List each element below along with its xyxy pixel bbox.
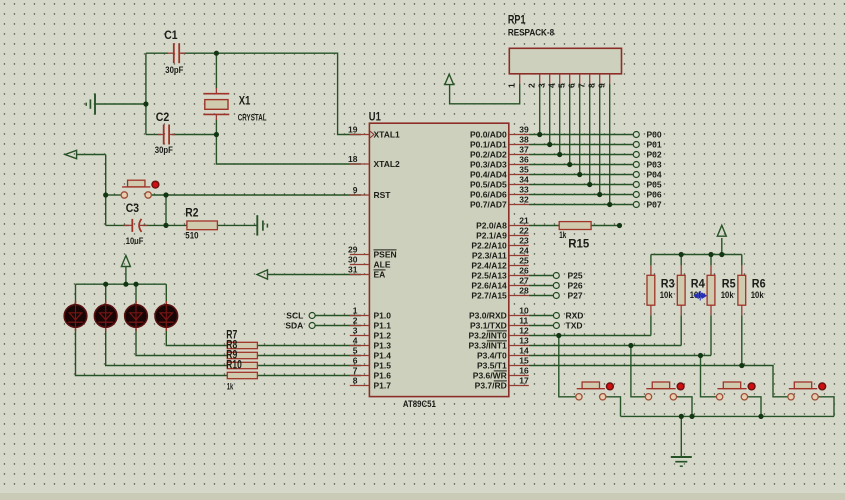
LED D3 xyxy=(125,301,148,331)
terminal SCL xyxy=(286,311,315,321)
wire R15 right stub xyxy=(591,225,619,227)
wire pull-up power rail xyxy=(651,254,742,256)
node XTAL1 net xyxy=(214,51,219,56)
svg-text:13: 13 xyxy=(519,336,529,346)
svg-text:32: 32 xyxy=(519,195,529,205)
svg-text:28: 28 xyxy=(519,286,529,296)
wire resistor to P1 pin xyxy=(257,355,361,357)
svg-text:5: 5 xyxy=(353,346,358,356)
svg-text:P2.1/A9: P2.1/A9 xyxy=(476,231,507,241)
node INT1 branch xyxy=(628,343,633,348)
wire RP1 pin 2 to P0.0 net xyxy=(539,84,541,135)
wire R2 right to ground xyxy=(217,224,257,226)
resistor R2 xyxy=(187,221,218,230)
svg-text:17: 17 xyxy=(519,376,529,386)
svg-text:34: 34 xyxy=(519,175,529,185)
terminal P27 xyxy=(553,291,583,301)
U1 left pin names xyxy=(374,130,401,391)
push button SW1 xyxy=(576,382,614,400)
svg-text:P1.1: P1.1 xyxy=(374,321,392,331)
svg-text:P0.7/AD7: P0.7/AD7 xyxy=(470,200,507,210)
svg-text:24: 24 xyxy=(519,246,529,256)
svg-text:5: 5 xyxy=(556,83,566,88)
wire rail to resistor top xyxy=(680,255,682,266)
node ground stem xyxy=(679,414,684,419)
wire R5 bottom to T0 row xyxy=(710,315,712,355)
svg-text:EA: EA xyxy=(374,270,386,280)
svg-text:C2: C2 xyxy=(156,112,170,124)
wire RP1 pin 7 to P0.5 net xyxy=(589,84,591,185)
node T0 branch xyxy=(698,353,703,358)
svg-text:RESPACK-8: RESPACK-8 xyxy=(508,28,554,39)
svg-text:4: 4 xyxy=(353,336,358,346)
svg-text:RXD: RXD xyxy=(566,311,584,321)
svg-text:P3.3/INT1: P3.3/INT1 xyxy=(469,341,508,351)
wire LED anode rail xyxy=(76,283,167,285)
node C3/R2 xyxy=(163,223,168,228)
wire P0.5 to terminal P05 xyxy=(529,184,633,186)
svg-text:P26: P26 xyxy=(568,281,583,291)
wire P2.6 to terminal P26 xyxy=(529,285,553,287)
RP1 pin numbers xyxy=(506,83,606,88)
svg-text:R10: R10 xyxy=(226,359,242,371)
svg-text:31: 31 xyxy=(348,265,358,275)
svg-text:P04: P04 xyxy=(647,170,662,180)
wire P2.0 to R15 left xyxy=(529,225,559,227)
svg-text:16: 16 xyxy=(519,366,529,376)
cursor marker blue arrow xyxy=(694,291,706,301)
wire node to XTAL1 xyxy=(216,53,361,134)
svg-text:X1: X1 xyxy=(239,95,251,107)
wire R4 bottom to INT1 row xyxy=(680,315,682,345)
node ground tap xyxy=(143,101,148,106)
svg-text:30pF: 30pF xyxy=(165,65,183,76)
resistor R10 xyxy=(227,372,257,378)
svg-text:P1.2: P1.2 xyxy=(374,331,392,341)
svg-text:26: 26 xyxy=(519,266,529,276)
svg-text:29: 29 xyxy=(348,245,358,255)
node P0.1/RP1 xyxy=(547,142,552,147)
svg-text:P02: P02 xyxy=(647,150,662,160)
wire RP1 pin 8 to P0.6 net xyxy=(599,84,601,195)
power arrow pull-up rail xyxy=(717,225,726,236)
node SW3 drop xyxy=(758,414,763,419)
node P0.6/RP1 xyxy=(597,192,602,197)
terminal P06 xyxy=(633,190,662,200)
node RST right xyxy=(163,192,168,197)
svg-text:R15: R15 xyxy=(568,239,590,251)
node rail R4 xyxy=(679,252,684,257)
wire node down to crystal top xyxy=(215,53,217,88)
svg-text:P1.0: P1.0 xyxy=(374,311,392,321)
wire P0.3 to terminal P03 xyxy=(529,164,633,166)
svg-text:P0.6/AD6: P0.6/AD6 xyxy=(470,190,507,200)
svg-text:P05: P05 xyxy=(647,180,662,190)
wire P3.1 to TXD terminal xyxy=(529,325,553,327)
svg-text:C3: C3 xyxy=(126,203,139,215)
svg-text:PSEN: PSEN xyxy=(374,250,397,260)
wire INT1 branch to button SW2 xyxy=(631,346,645,397)
terminal RXD xyxy=(553,311,583,321)
svg-text:C1: C1 xyxy=(164,30,178,42)
svg-text:R6: R6 xyxy=(752,279,766,291)
svg-text:U1: U1 xyxy=(369,111,381,123)
wire P3.5/T1 row to button SW4 xyxy=(529,366,788,397)
capacitor C1 xyxy=(168,43,185,63)
svg-text:9: 9 xyxy=(353,185,358,195)
resistor R3 xyxy=(647,265,655,315)
svg-text:30pF: 30pF xyxy=(155,145,173,156)
wire P0.4 to terminal P04 xyxy=(529,174,633,176)
ground right of R2 xyxy=(257,215,267,235)
terminal P01 xyxy=(633,140,662,150)
wire power arrow stem to rail xyxy=(721,238,723,255)
resistor R9 xyxy=(227,362,257,368)
svg-text:R5: R5 xyxy=(722,279,736,291)
wire RST net left vertical xyxy=(105,155,107,226)
U1 left pin stubs xyxy=(350,135,370,386)
terminal SDA xyxy=(285,321,315,331)
node rail R5 xyxy=(708,252,713,257)
wire input arrow to RST net xyxy=(77,154,106,156)
IC U1 AT89C51 body xyxy=(369,123,508,396)
wire RP1 pin 1 to power arrow xyxy=(450,84,520,104)
wire P0.2 to terminal P02 xyxy=(529,154,633,156)
wire C1 right to node xyxy=(181,52,216,54)
wire button ground rail xyxy=(621,415,835,417)
svg-text:3: 3 xyxy=(353,326,358,336)
node P0.3/RP1 xyxy=(567,162,572,167)
terminal P26 xyxy=(553,281,583,291)
wire INT0 branch to button SW1 xyxy=(559,336,576,397)
svg-text:25: 25 xyxy=(519,256,529,266)
svg-text:XTAL2: XTAL2 xyxy=(374,159,401,169)
wire resistor to P1 pin xyxy=(257,345,361,347)
node XTAL2 net xyxy=(214,132,219,137)
wire RP1 pin 9 to P0.7 net xyxy=(609,84,611,205)
svg-text:37: 37 xyxy=(519,145,529,155)
push button SW2 xyxy=(645,382,684,400)
push button SW3 xyxy=(716,382,755,400)
input arrow EA net xyxy=(257,270,268,279)
svg-text:P3.1/TXD: P3.1/TXD xyxy=(470,321,507,331)
wire to C1 left xyxy=(146,52,168,54)
wire node to XTAL2 xyxy=(216,135,361,165)
terminal P04 xyxy=(633,170,662,180)
wire to C2 left xyxy=(146,134,161,136)
U1 right pin stubs xyxy=(509,135,529,386)
svg-text:P0.3/AD3: P0.3/AD3 xyxy=(470,160,507,170)
node R6/T1 xyxy=(739,363,744,368)
svg-text:ALE: ALE xyxy=(374,260,391,270)
svg-text:RST: RST xyxy=(374,190,392,200)
svg-text:2: 2 xyxy=(526,83,536,88)
resistor R8 xyxy=(227,352,257,358)
node P0.5/RP1 xyxy=(587,182,592,187)
wire SDA terminal to P1.1 xyxy=(315,325,361,327)
terminal P00 xyxy=(633,130,662,140)
svg-text:P3.0/RXD: P3.0/RXD xyxy=(469,311,507,321)
svg-text:P1.3: P1.3 xyxy=(374,341,392,351)
wire P2.5 to terminal P25 xyxy=(529,275,553,277)
svg-text:9: 9 xyxy=(596,83,606,88)
ground left of C1 xyxy=(86,94,95,115)
U1 right pin names xyxy=(469,130,508,391)
push button SW-RST xyxy=(121,180,159,198)
svg-text:10k: 10k xyxy=(721,290,734,301)
node P0.4/RP1 xyxy=(577,172,582,177)
svg-text:AT89C51: AT89C51 xyxy=(403,399,437,410)
svg-text:18: 18 xyxy=(348,154,358,164)
wire P2.7 to terminal P27 xyxy=(529,295,553,297)
svg-text:XTAL1: XTAL1 xyxy=(374,130,401,140)
svg-text:22: 22 xyxy=(519,226,529,236)
crystal X1 xyxy=(203,88,229,120)
wire SW2 to ground rail xyxy=(677,397,692,417)
wire T0 branch to button SW3 xyxy=(701,356,717,397)
wire rail to LED top xyxy=(105,284,107,303)
wire SW4 to ground rail xyxy=(818,397,834,417)
svg-text:R2: R2 xyxy=(185,207,198,219)
svg-text:P3.4/T0: P3.4/T0 xyxy=(477,351,507,361)
svg-text:35: 35 xyxy=(519,165,529,175)
svg-text:36: 36 xyxy=(519,155,529,165)
node LED rail 2 xyxy=(133,282,138,287)
svg-text:33: 33 xyxy=(519,185,529,195)
RP1 pin stubs xyxy=(520,74,610,84)
resistor R7 xyxy=(227,342,257,348)
node INT0 branch xyxy=(556,333,561,338)
svg-text:14: 14 xyxy=(519,346,529,356)
wire C3 right to R2 left xyxy=(143,224,187,226)
node rail power xyxy=(719,252,724,257)
svg-text:P0.4/AD4: P0.4/AD4 xyxy=(470,170,507,180)
wire C2 right to node xyxy=(172,134,217,136)
U1 right pin numbers xyxy=(519,125,529,386)
svg-text:P0.5/AD5: P0.5/AD5 xyxy=(470,180,507,190)
wire P3.4/T0 row to R5 xyxy=(529,355,711,357)
svg-text:23: 23 xyxy=(519,236,529,246)
svg-text:2: 2 xyxy=(353,316,358,326)
wire P0.1 to terminal P01 xyxy=(529,144,633,146)
wire SW1 to ground rail xyxy=(606,397,621,417)
wire P3.0 to RXD terminal xyxy=(529,315,553,317)
resistor R4 xyxy=(677,265,685,315)
wire RP1 pin 3 to P0.1 net xyxy=(549,84,551,145)
wire rail to resistor top xyxy=(741,255,743,266)
power arrow LED rail xyxy=(121,256,130,267)
svg-text:SCL: SCL xyxy=(286,311,303,321)
wire P3.2/INT0 row to R3 xyxy=(529,335,651,337)
wire P0.7 to terminal P07 xyxy=(529,204,633,206)
terminal P05 xyxy=(633,180,662,190)
svg-text:15: 15 xyxy=(519,356,529,366)
push button SW4 xyxy=(788,382,826,400)
svg-text:19: 19 xyxy=(348,125,358,135)
wire ground to C1/C2 node xyxy=(96,103,146,105)
svg-text:7: 7 xyxy=(576,83,586,88)
svg-text:1: 1 xyxy=(353,306,358,316)
svg-text:8: 8 xyxy=(353,376,358,386)
terminal TXD xyxy=(553,321,582,331)
ground buttons xyxy=(671,457,692,466)
svg-text:10k: 10k xyxy=(751,290,764,301)
svg-text:RP1: RP1 xyxy=(508,14,526,26)
wire rail to resistor top xyxy=(650,255,652,266)
node LED rail power xyxy=(123,282,128,287)
svg-text:P2.3/A11: P2.3/A11 xyxy=(472,251,507,261)
svg-text:P2.0/A8: P2.0/A8 xyxy=(476,221,507,231)
wire P3.3/INT1 row to R4 xyxy=(529,345,681,347)
svg-text:P3.7/RD: P3.7/RD xyxy=(475,381,507,391)
svg-text:P1.7: P1.7 xyxy=(374,381,392,391)
wire R3 bottom to INT0 row xyxy=(650,315,652,335)
svg-text:4: 4 xyxy=(546,83,556,88)
wire SCL terminal to P1.0 xyxy=(315,315,361,317)
svg-text:510: 510 xyxy=(185,230,198,241)
node R15 end xyxy=(617,223,622,228)
svg-text:P2.5/A13: P2.5/A13 xyxy=(471,271,507,281)
svg-text:R4: R4 xyxy=(691,279,705,291)
svg-text:10: 10 xyxy=(519,306,529,316)
svg-text:P2.7/A15: P2.7/A15 xyxy=(471,291,507,301)
svg-text:P2.2/A10: P2.2/A10 xyxy=(471,241,507,251)
LED D2 xyxy=(94,301,117,331)
wire RP1 pin 4 to P0.2 net xyxy=(559,84,561,155)
wire P0.6 to terminal P06 xyxy=(529,194,633,196)
svg-text:12: 12 xyxy=(519,326,529,336)
wire RP1 pin 6 to P0.4 net xyxy=(579,84,581,175)
LED D4 xyxy=(155,301,178,331)
wire SW3 to ground rail xyxy=(748,397,761,417)
svg-text:1k: 1k xyxy=(227,381,234,392)
wire RST node down to C3/R2 node xyxy=(165,195,167,225)
resistor pack RP1 RESPACK-8 body xyxy=(509,48,621,74)
svg-text:39: 39 xyxy=(519,125,529,135)
wire LED cathode to resistor xyxy=(166,329,227,346)
svg-text:R3: R3 xyxy=(661,279,675,291)
svg-text:P3.5/T1: P3.5/T1 xyxy=(477,361,507,371)
svg-text:P1.4: P1.4 xyxy=(374,351,392,361)
node RST left xyxy=(103,192,108,197)
svg-text:TXD: TXD xyxy=(566,321,583,331)
svg-text:P01: P01 xyxy=(647,140,662,150)
svg-text:P27: P27 xyxy=(568,291,583,301)
svg-text:38: 38 xyxy=(519,135,529,145)
terminal P07 xyxy=(633,200,662,210)
svg-text:CRYSTAL: CRYSTAL xyxy=(238,112,267,123)
svg-text:10uF: 10uF xyxy=(126,236,144,247)
svg-text:P06: P06 xyxy=(647,190,662,200)
svg-text:6: 6 xyxy=(566,83,576,88)
wire to C3 left xyxy=(106,224,129,226)
wire resistor to P1 pin xyxy=(257,365,361,367)
terminal P02 xyxy=(633,150,662,160)
resistor R5 xyxy=(707,265,715,315)
svg-text:P00: P00 xyxy=(647,130,662,140)
wire rail to LED top xyxy=(75,284,77,303)
svg-text:SDA: SDA xyxy=(285,321,303,331)
wire C1-C2 left vertical xyxy=(145,53,147,134)
svg-text:P0.2/AD2: P0.2/AD2 xyxy=(470,150,507,160)
svg-text:3: 3 xyxy=(536,83,546,88)
node SW2 drop xyxy=(689,414,694,419)
wire rail to ground symbol xyxy=(680,416,682,457)
wire power arrow stem to LED rail xyxy=(125,267,127,284)
wire to button SW-RST left contact xyxy=(106,194,122,196)
wire LED cathode to resistor xyxy=(76,329,228,376)
svg-text:P1.5: P1.5 xyxy=(374,361,392,371)
svg-text:27: 27 xyxy=(519,276,529,286)
wire LED cathode to resistor xyxy=(106,329,228,366)
terminal P03 xyxy=(633,160,662,170)
wire rail to LED top xyxy=(135,284,137,303)
svg-text:30: 30 xyxy=(348,255,358,265)
svg-text:P0.1/AD1: P0.1/AD1 xyxy=(470,140,507,150)
power arrow RP1 xyxy=(445,74,454,84)
input arrow RST net xyxy=(65,150,77,158)
node P0.7/RP1 xyxy=(607,202,612,207)
svg-text:1k: 1k xyxy=(559,230,566,241)
capacitor C3 electrolytic xyxy=(124,219,148,232)
wire input arrow to EA pin xyxy=(268,274,362,276)
wire R6 bottom to T1 row xyxy=(741,315,743,365)
U1 left pin numbers xyxy=(348,125,358,386)
wire rail to LED top xyxy=(165,284,167,303)
U1 clock marker XTAL1 xyxy=(370,131,374,138)
svg-text:P3.6/WR: P3.6/WR xyxy=(473,371,507,381)
svg-text:8: 8 xyxy=(586,83,596,88)
resistor R6 xyxy=(738,265,746,315)
svg-text:P1.6: P1.6 xyxy=(374,371,392,381)
terminal P25 xyxy=(553,271,583,281)
wire rail to resistor top xyxy=(710,255,712,266)
svg-text:P2.4/A12: P2.4/A12 xyxy=(471,261,507,271)
node P0.2/RP1 xyxy=(557,152,562,157)
wire P0.0 to terminal P00 xyxy=(529,134,633,136)
svg-text:P07: P07 xyxy=(647,200,662,210)
svg-text:P03: P03 xyxy=(647,160,662,170)
wire SW-RST right contact to RST pin xyxy=(151,194,361,196)
wire LED cathode to resistor xyxy=(136,329,227,356)
wire crystal bottom to node xyxy=(215,120,217,135)
svg-text:P0.0/AD0: P0.0/AD0 xyxy=(470,130,507,140)
svg-text:7: 7 xyxy=(353,366,358,376)
node LED rail 1 xyxy=(103,282,108,287)
svg-text:1: 1 xyxy=(506,83,516,88)
svg-text:21: 21 xyxy=(519,216,529,226)
node P0.0/RP1 xyxy=(537,132,542,137)
svg-text:11: 11 xyxy=(519,316,528,326)
svg-text:P2.6/A14: P2.6/A14 xyxy=(471,281,507,291)
wire RP1 pin 5 to P0.3 net xyxy=(569,84,571,165)
svg-text:P3.2/INT0: P3.2/INT0 xyxy=(469,331,508,341)
wire resistor to P1 pin xyxy=(257,375,361,377)
capacitor C2 xyxy=(158,125,175,145)
svg-text:10k: 10k xyxy=(660,290,673,301)
resistor R15 xyxy=(559,222,591,230)
svg-text:P25: P25 xyxy=(568,271,583,281)
LED D1 xyxy=(64,301,87,331)
svg-text:6: 6 xyxy=(353,356,358,366)
